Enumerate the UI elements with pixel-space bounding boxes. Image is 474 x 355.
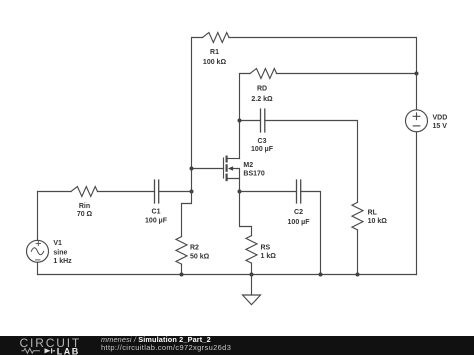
svg-text:10 kΩ: 10 kΩ (368, 218, 388, 225)
wire C3 left stub from drain column (240, 120, 261, 122)
node C2 bottom (319, 273, 323, 277)
wire Rin to C1 (98, 191, 155, 193)
wire VDD top (416, 74, 418, 110)
svg-text:70 Ω: 70 Ω (77, 211, 93, 218)
svg-text:R2: R2 (190, 244, 199, 251)
svg-text:Rin: Rin (79, 203, 90, 210)
capacitor C2 (288, 180, 311, 226)
svg-text:RL: RL (368, 210, 378, 217)
capacitor C3 (251, 109, 274, 153)
wire gate stub (192, 168, 224, 170)
svg-text:15 V: 15 V (433, 123, 448, 130)
svg-text:M2: M2 (243, 162, 253, 169)
attribution text (101, 336, 211, 344)
resistor Rin (71, 187, 97, 219)
wire source down to RS (240, 192, 252, 236)
wire RS bottom to rail (251, 263, 253, 274)
svg-text:BS170: BS170 (243, 170, 265, 177)
wire VDD bottom to rail (416, 132, 418, 275)
transistor M2 (224, 157, 265, 192)
svg-text:100 µF: 100 µF (288, 219, 311, 226)
svg-text:C3: C3 (258, 138, 267, 145)
svg-text:R1: R1 (210, 49, 219, 56)
wire C1 right to node (159, 191, 192, 193)
wire C3 right over to RL (265, 121, 358, 203)
resistor RL (352, 202, 387, 230)
node C3 junction on drain column (238, 119, 242, 123)
svg-text:C2: C2 (294, 209, 303, 216)
node C1 right junction (190, 190, 194, 194)
resistor R1 (203, 33, 229, 66)
svg-text:sine: sine (53, 249, 67, 256)
wire RL bottom to rail (357, 230, 359, 275)
resistor R2 (176, 237, 210, 265)
node source junction (238, 190, 242, 194)
resistor RS (246, 236, 276, 264)
svg-text:50 kΩ: 50 kΩ (190, 253, 210, 260)
svg-text:2.2 kΩ: 2.2 kΩ (251, 96, 273, 103)
wire V1 bottom to rail (37, 262, 39, 274)
resistor RD (250, 69, 277, 103)
ground (243, 275, 261, 305)
svg-text:VDD: VDD (433, 115, 448, 122)
svg-text:RD: RD (257, 85, 267, 92)
svg-text:RS: RS (261, 244, 271, 251)
wire RD right to VDD column (277, 73, 417, 75)
wire R2 bottom to rail (181, 264, 183, 274)
node gate junction (190, 167, 194, 171)
node RS/ground junction (250, 273, 254, 277)
wire C2 right down to rail (301, 192, 321, 275)
svg-text:1 kΩ: 1 kΩ (261, 253, 277, 260)
node RL bottom (356, 273, 360, 277)
wire left vertical from R1 down to C1 node (192, 38, 203, 192)
wire V1 top to Rin (38, 192, 72, 241)
wire R1 right to VDD column (229, 38, 417, 74)
wire RD left vertical down to MOSFET drain (240, 74, 251, 159)
voltage source V1 (27, 240, 73, 265)
voltage source VDD (406, 110, 448, 132)
svg-text:LAB: LAB (57, 346, 80, 355)
wire source to C2 (240, 191, 297, 193)
svg-text:100 µF: 100 µF (145, 217, 168, 224)
svg-text:100 kΩ: 100 kΩ (203, 59, 227, 66)
svg-text:100 µF: 100 µF (251, 146, 274, 153)
CircuitLab logo (19, 337, 94, 355)
wire bottom rail (38, 274, 417, 276)
svg-text:V1: V1 (53, 240, 62, 247)
capacitor C1 (145, 180, 168, 224)
wire node down-left to R2 (182, 192, 192, 237)
svg-text:1 kHz: 1 kHz (53, 258, 72, 265)
node R2 bottom (180, 273, 184, 277)
node RD/R1/VDD junction (415, 72, 419, 76)
bottom bar (0, 336, 474, 355)
svg-text:C1: C1 (152, 209, 161, 216)
